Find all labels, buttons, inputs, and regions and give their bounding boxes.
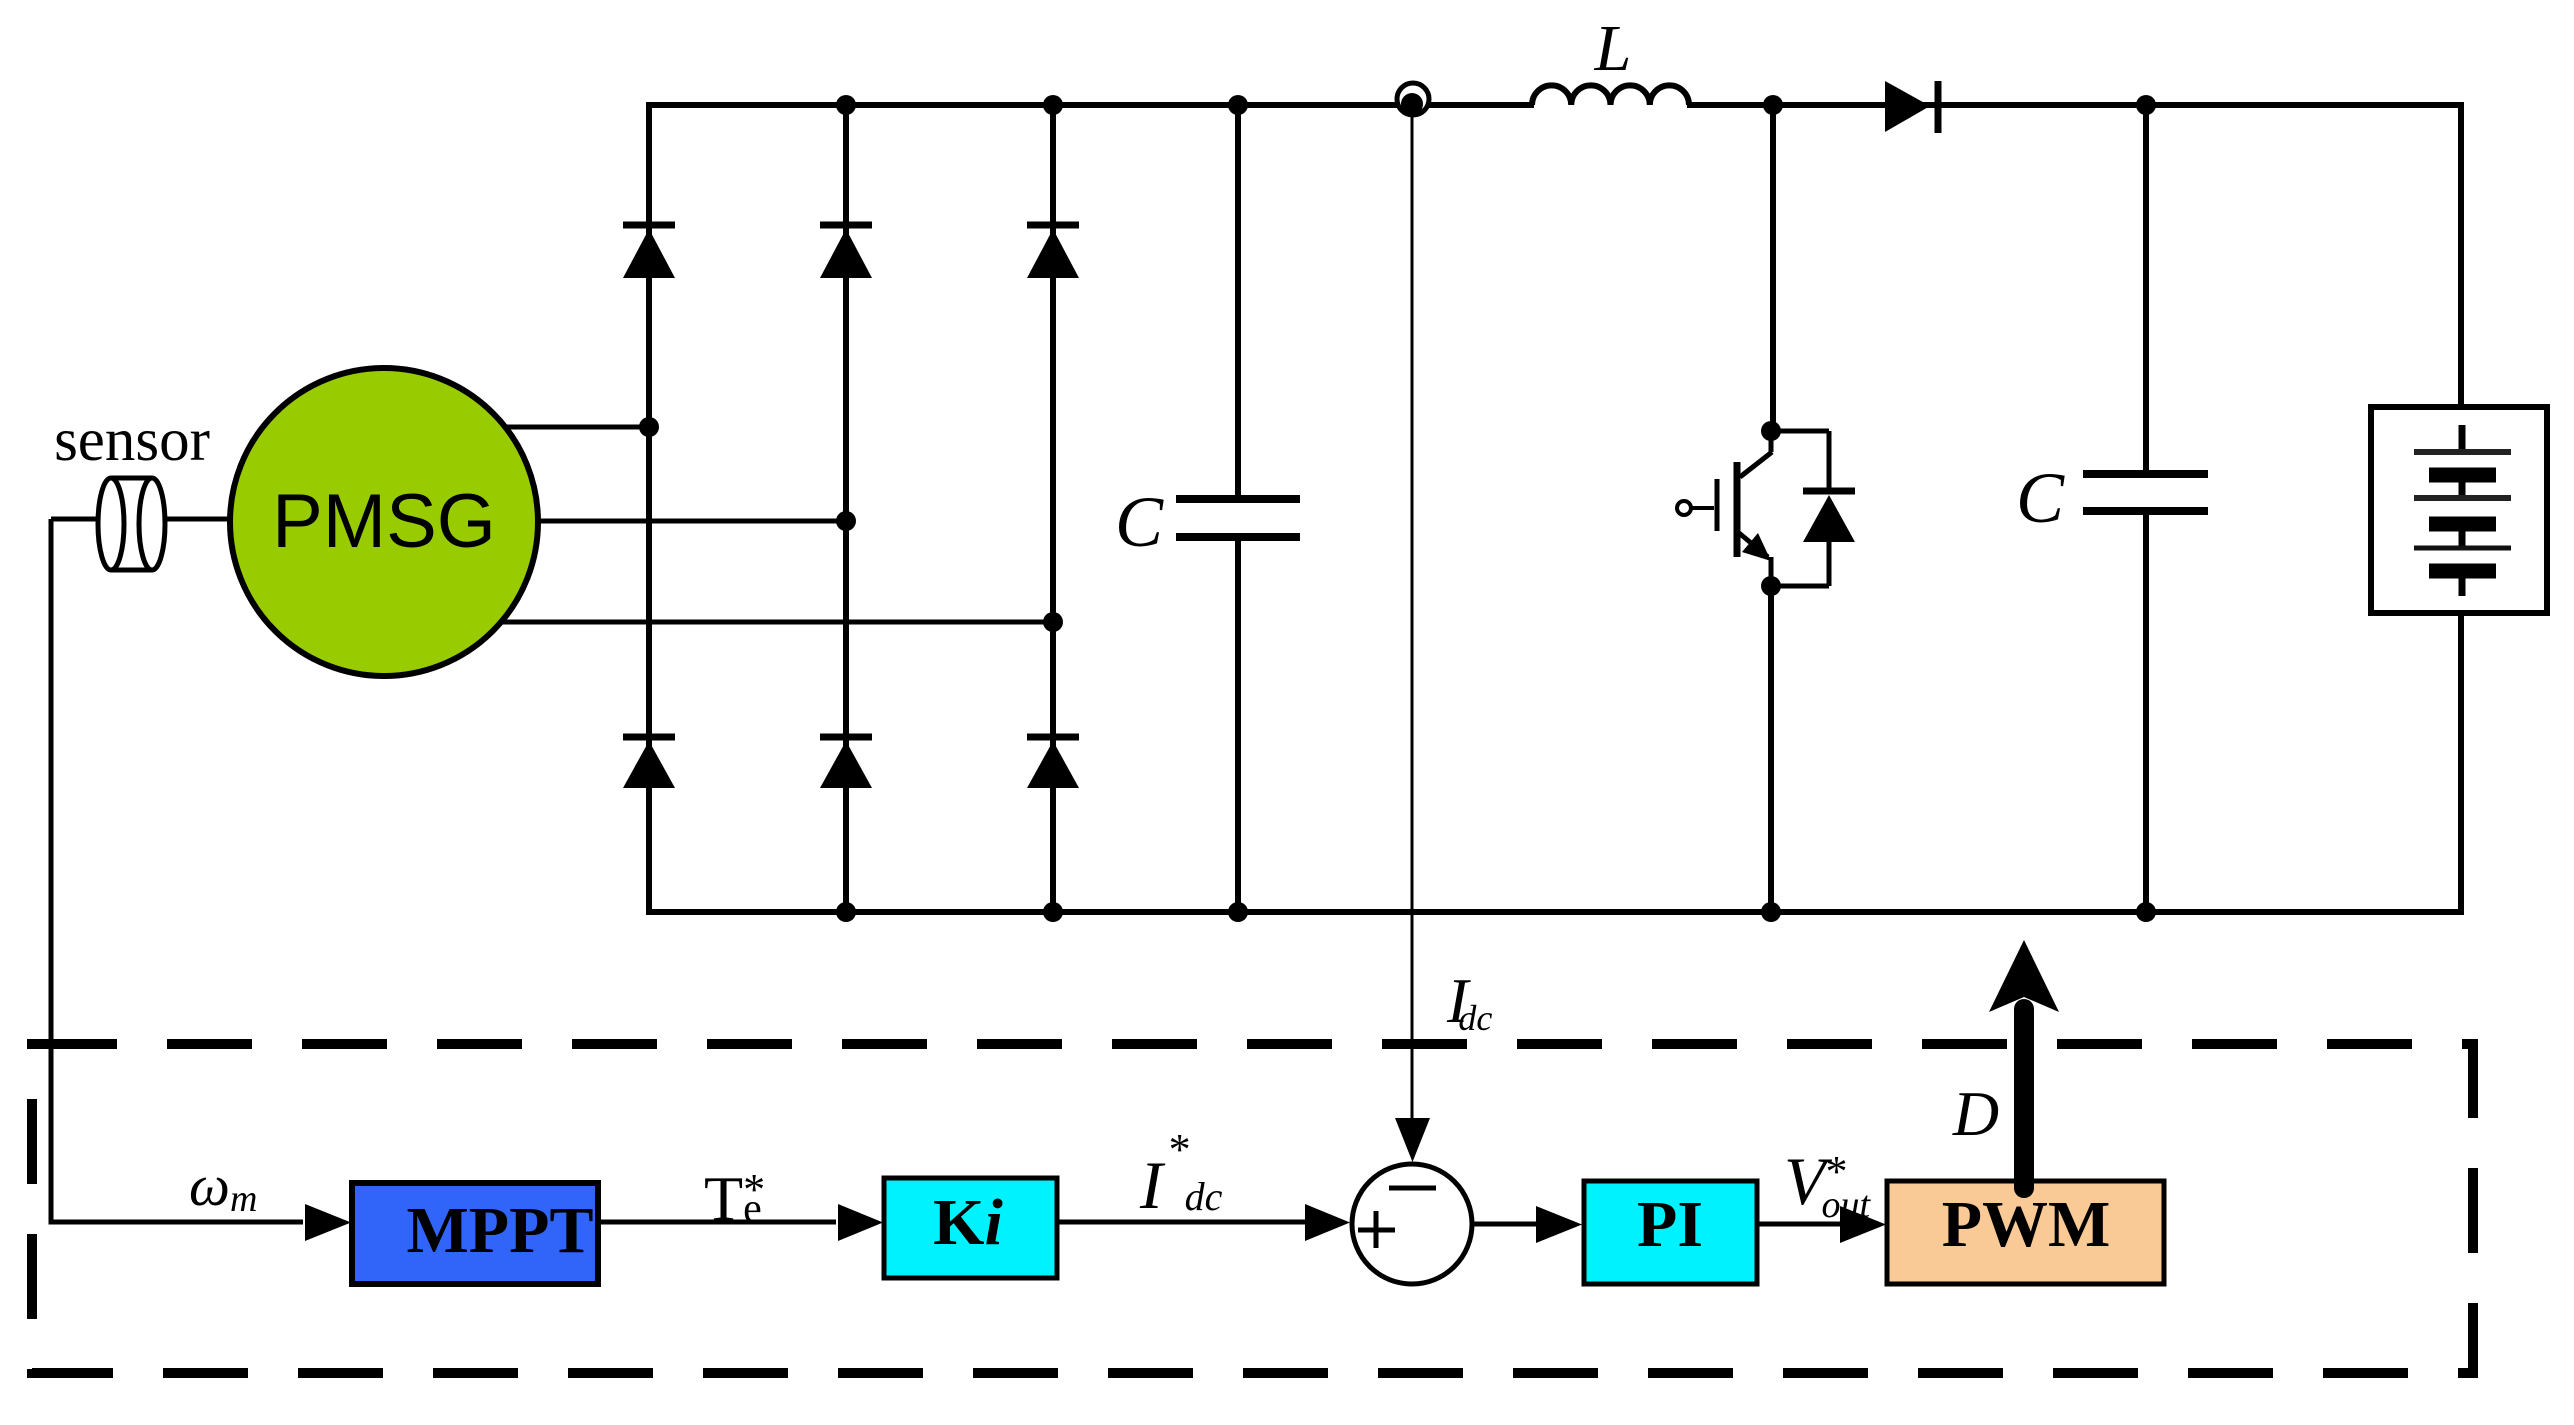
block PI (1584, 1181, 1757, 1284)
node top bus C2 (2136, 95, 2156, 115)
node phase b junction (836, 511, 856, 531)
svg-text:D: D (1952, 1078, 1999, 1149)
wire top DC bus right of inductor (1687, 102, 2461, 108)
block PWM (1887, 1181, 2164, 1284)
wire speed feedback down left side (51, 519, 303, 1222)
wire arrow into PI (1536, 1206, 1582, 1243)
wire arrow Idc into summing junction (1395, 1118, 1430, 1162)
wire right branch to battery top (2458, 102, 2464, 409)
wire top DC bus left of inductor (649, 102, 1534, 108)
wire IGBT emitter to bottom bus (1768, 586, 1774, 915)
diode D2 upper leg2 (820, 225, 872, 278)
node bottom bus C1 (1228, 902, 1248, 922)
wire PI to PWM (1757, 1222, 1841, 1227)
capacitor C1 wire bottom (1235, 537, 1241, 915)
node top bus leg2 (836, 95, 856, 115)
node bottom bus C2 (2136, 902, 2156, 922)
wire phase b (535, 519, 846, 524)
transistor Q1 IGBT (1677, 431, 1772, 586)
wire rectifier leg 1 (646, 102, 652, 915)
svg-text:PWM: PWM (1942, 1188, 2111, 1261)
wire phase a (500, 425, 649, 430)
block MPPT (352, 1183, 598, 1284)
node bottom bus IGBT leg (1761, 902, 1781, 922)
diode D4 lower leg1 (623, 737, 675, 788)
node phase c junction (1043, 612, 1063, 632)
node IGBT collector (1761, 421, 1781, 441)
diode D8 series boost diode (1885, 81, 1938, 133)
wire phase c (498, 620, 1053, 625)
svg-text:PI: PI (1637, 1188, 1703, 1261)
capacitor C1 wire top (1235, 102, 1241, 499)
capacitor C2 wire top (2143, 102, 2149, 474)
diode D3 upper leg3 (1027, 225, 1079, 278)
block Ki (884, 1178, 1057, 1278)
generator PMSG (230, 368, 538, 676)
battery BT1 cells (2414, 425, 2511, 596)
wire arrow into PWM (1840, 1206, 1886, 1243)
wire rectifier leg 2 (843, 102, 849, 915)
summing junction (1352, 1164, 1472, 1284)
wire Idc sense line (1411, 112, 1414, 1120)
svg-text:L: L (1594, 12, 1632, 85)
svg-text:MPPT: MPPT (407, 1194, 594, 1267)
wire IGBT collector branch (1770, 105, 1776, 431)
svg-text:C: C (1115, 482, 1164, 562)
wire bottom DC bus (646, 909, 2464, 915)
capacitor C1 plates (1176, 499, 1300, 537)
speed sensor coupling symbol (98, 478, 165, 570)
wire arrow into MPPT (305, 1204, 351, 1241)
wire MPPT to Ki (598, 1220, 836, 1225)
svg-text:C: C (2016, 458, 2065, 538)
node phase a junction (639, 417, 659, 437)
diode D6 lower leg3 (1027, 737, 1079, 788)
controller dashed box (32, 1044, 2473, 1373)
wire speed sensor left stub (51, 517, 100, 522)
inductor L (1532, 85, 1689, 105)
capacitor C2 plates (2083, 474, 2208, 511)
wire Ki to summing junction (1057, 1220, 1306, 1225)
diode D5 lower leg2 (820, 737, 872, 788)
wire battery bottom to bottom bus (2458, 611, 2464, 915)
node top bus C1 (1228, 95, 1248, 115)
svg-text:Ki: Ki (933, 1186, 1003, 1259)
battery BT1 outline (2371, 407, 2547, 613)
node IGBT emitter (1761, 576, 1781, 596)
wire sensor to PMSG (165, 517, 235, 522)
current sensor tap ring (1397, 83, 1429, 115)
diode D1 upper leg1 (623, 225, 675, 278)
svg-text:PMSG: PMSG (272, 479, 496, 564)
capacitor C2 wire bottom (2143, 511, 2149, 915)
wire arrow into Ki (838, 1204, 883, 1241)
svg-text:sensor: sensor (54, 407, 210, 474)
wire thick D arrow PWM to gate bus (1989, 940, 2059, 1188)
node bottom bus leg3 (1043, 902, 1063, 922)
node bottom bus leg2 (836, 902, 856, 922)
wire rectifier leg 3 (1050, 102, 1056, 915)
diode D7 freewheel across IGBT (1771, 431, 1855, 586)
wire summing junction to PI (1472, 1222, 1537, 1227)
node top bus leg3 (1043, 95, 1063, 115)
wire arrow into summing junction (1305, 1204, 1350, 1241)
node inductor output (1763, 95, 1783, 115)
